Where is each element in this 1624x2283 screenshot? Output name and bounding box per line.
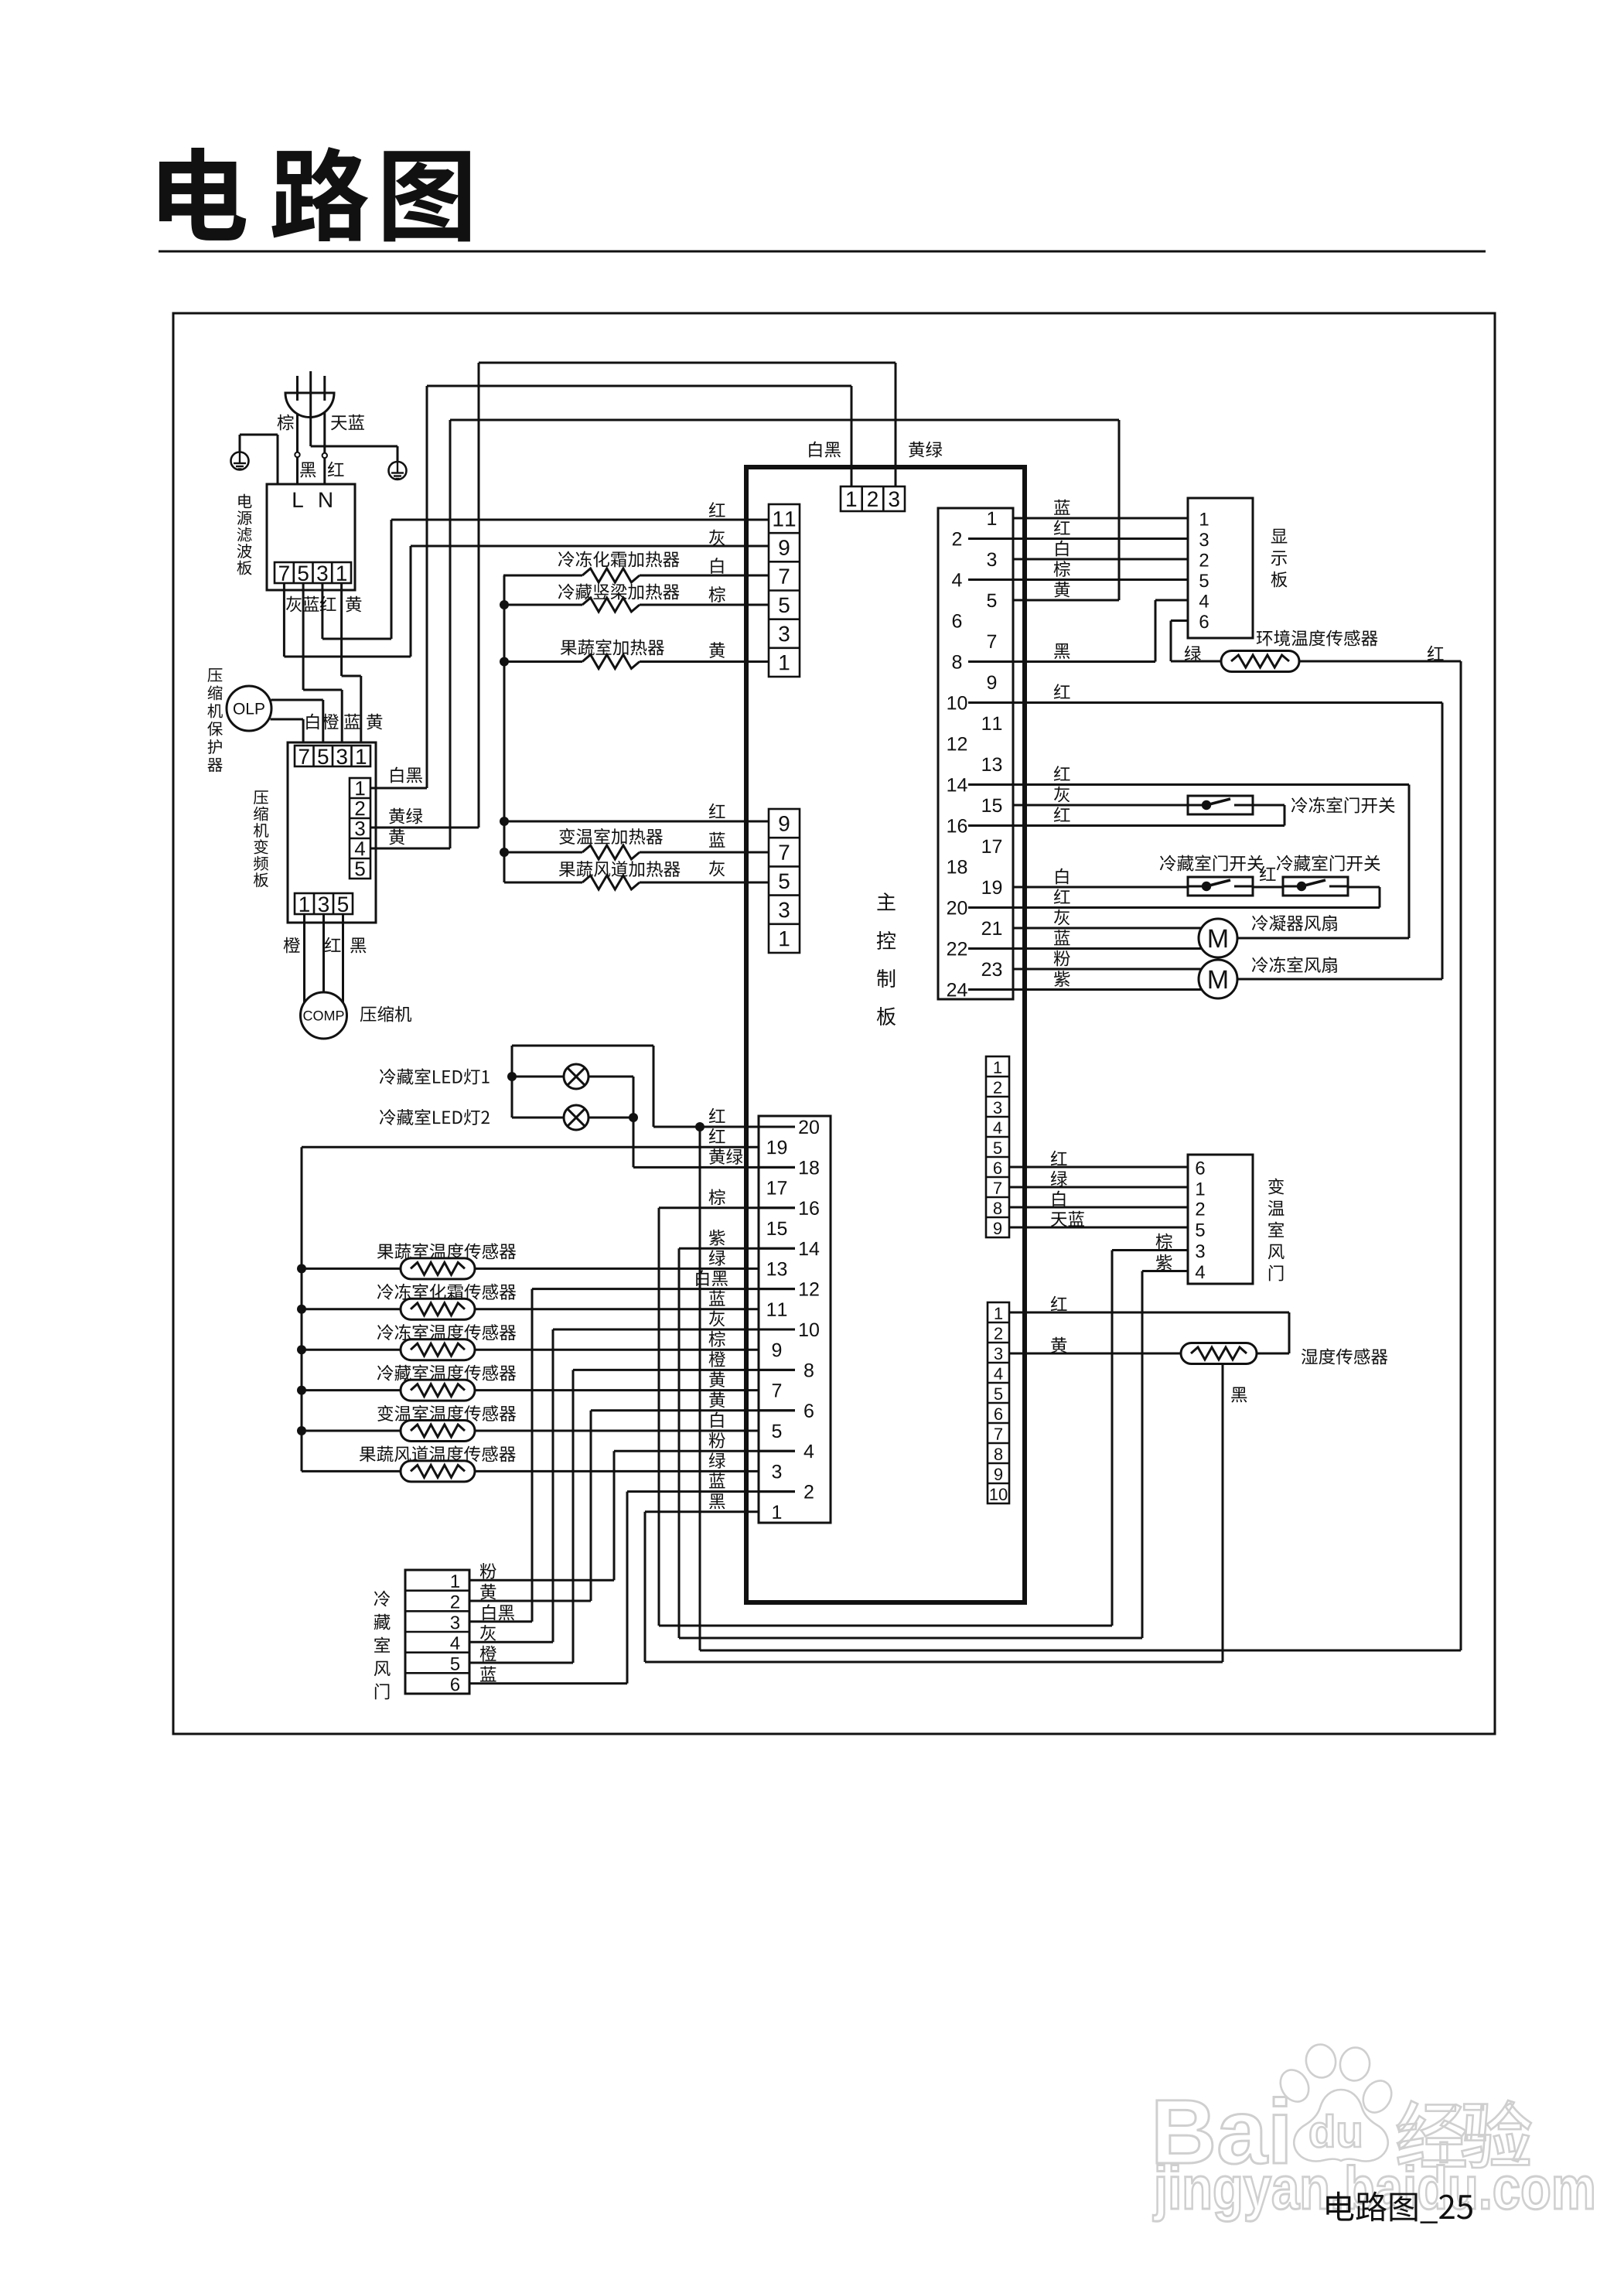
labels 红 黄 bbox=[1051, 1296, 1067, 1311]
plug prong earth bbox=[309, 371, 312, 418]
wire red 红: filter 3 to heater connector CN-A pin 11 bbox=[321, 583, 323, 639]
wire 红 CN-R 20 from fridge door switches bbox=[1348, 886, 1380, 889]
wire 棕 CN-R 4 to display 5 bbox=[1013, 578, 1188, 581]
label 红 bbox=[1428, 646, 1444, 660]
compressor protector OLP bbox=[227, 686, 271, 731]
connector CN-R pins 1-24 bbox=[938, 508, 1013, 999]
label 主控制板 (vertical) bbox=[877, 892, 896, 1025]
wire 棕 CN-L 16 to variable-room damper pin 3 bbox=[659, 1206, 795, 1209]
wire 橙: fridge damper pin 5 to CN-L pin 8 bbox=[573, 1369, 795, 1371]
label 蓝 at CN-L pin 2 bbox=[709, 1473, 725, 1488]
wire 蓝 CN-R 22 to condenser fan bbox=[1013, 947, 1201, 950]
wire 天蓝 CN-V1 9 to variable damper 5 bbox=[1009, 1227, 1188, 1229]
wire yellow 黄: filter 1 to inverter terminal 1 bbox=[340, 583, 343, 676]
wire 红 CN-V1 6 to variable damper 6 bbox=[1009, 1166, 1188, 1169]
label 绿 at CN-L pin 13 bbox=[709, 1250, 725, 1266]
connector CN-V1 pins 1-9 bbox=[986, 1056, 1009, 1237]
label 压缩机保护器 (vertical) bbox=[207, 668, 223, 772]
label 黄 at inverter bbox=[389, 829, 404, 845]
wire 绿 CN-V1 7 to variable damper 1 bbox=[1009, 1186, 1188, 1189]
junction dot LED1 bbox=[507, 1072, 517, 1081]
page title 电路图 bbox=[159, 148, 246, 241]
wire 黑 humidity sensor to bottom bus bbox=[1222, 1364, 1224, 1663]
label 绿 bbox=[1185, 646, 1201, 662]
inverter terminal strip 7 5 3 1 bbox=[295, 746, 370, 766]
labels 红红黄绿 at CN-L top bbox=[709, 1108, 725, 1123]
label 黑 bbox=[300, 462, 316, 478]
Baidu watermark bbox=[1157, 2097, 1286, 2164]
wire 黄: inverter pin 4 to main-board connector CN-R pin 5 bbox=[370, 848, 450, 850]
label 黄绿 at CN-T bbox=[909, 442, 942, 458]
fridge door switch 1 冷藏室门开关 bbox=[1188, 877, 1253, 896]
label 粉 at CN-L pin 4 bbox=[709, 1432, 725, 1449]
label 黑 bbox=[1231, 1387, 1247, 1403]
labels on damper wires bbox=[480, 1563, 496, 1579]
ambient temperature sensor 环境温度传感器 bbox=[1221, 651, 1299, 672]
fridge door switch 2 冷藏室门开关 bbox=[1283, 877, 1348, 896]
heater supply bus bbox=[503, 575, 506, 882]
label 白黑 at inverter bbox=[391, 767, 422, 783]
schematic outer border bbox=[173, 313, 1495, 1734]
label 蓝 at CN-L pin 11 bbox=[709, 1291, 725, 1306]
connector CN-T 1 2 3 bbox=[841, 486, 905, 511]
wire 红 CN-R 14 to condenser fan return bbox=[1013, 783, 1409, 786]
label 电源滤波板 (vertical) bbox=[237, 494, 251, 575]
label 白黑 at CN-L pin 12 bbox=[696, 1270, 728, 1286]
sensor 冷藏室温度传感器 bbox=[297, 1386, 306, 1395]
junction dot bbox=[500, 848, 509, 857]
wire red to CN-B pin 9 bbox=[504, 821, 769, 823]
wire 棕 to variable damper 3 bbox=[1112, 1249, 1188, 1251]
sensor 果蔬室温度传感器 bbox=[297, 1264, 306, 1273]
label 棕 bbox=[1156, 1234, 1172, 1250]
wire orange 橙: inverter 1 to compressor bbox=[303, 914, 305, 1003]
crisper heater 果蔬室加热器 bbox=[504, 660, 582, 663]
wire 黄 CN-V2 3 to humidity sensor bbox=[1009, 1353, 1181, 1355]
label 压缩机变频板 (vertical) bbox=[254, 790, 268, 887]
label 白 at CN-L pin 5 bbox=[711, 1412, 723, 1428]
plug prong N bbox=[323, 376, 326, 401]
CN-R even pin stubs bbox=[968, 537, 1013, 540]
sensor 果蔬风道温度传感器 bbox=[302, 1470, 759, 1473]
sensor 冷冻室化霜传感器 bbox=[297, 1305, 306, 1314]
label 红 between fridge switches bbox=[1260, 866, 1276, 881]
freezer fan motor M2 冷冻室风扇 bbox=[1237, 978, 1442, 981]
connector CN-V2 pins 1-10 bbox=[988, 1302, 1009, 1503]
wire display 4 to CN-R 8 (黑) bbox=[1155, 599, 1188, 602]
wire OLP to inverter terminal 7 bbox=[271, 718, 304, 721]
compressor inverter board 压缩机变频板 bbox=[288, 742, 376, 923]
wire 粉: fridge damper pin 1 to CN-L pin 4 bbox=[614, 1450, 795, 1452]
wire 蓝 CN-R 1 to display 1 bbox=[1013, 517, 1188, 520]
label 紫 bbox=[1156, 1254, 1172, 1271]
page number 电路图_25 bbox=[1326, 2192, 1472, 2223]
CN-L even pin stubs bbox=[759, 1490, 795, 1493]
label 黄绿 at inverter bbox=[389, 808, 422, 824]
wire sky-blue (天蓝) plug N to filter board bbox=[323, 412, 326, 453]
label 灰 at CN-L pin 10 bbox=[709, 1311, 725, 1327]
bus wire 黑 (CN-L1 to humidity sensor) bbox=[645, 1661, 1223, 1664]
wire grey 灰: filter 7 to heater connector CN-A pin 9 bbox=[283, 583, 285, 657]
heater connector CN-B pins 9 7 5 3 1 bbox=[769, 809, 800, 953]
wire 黑 CN-L 1 to humidity sensor bbox=[645, 1510, 759, 1513]
wire 红 CN-R 10 to freezer fan return bbox=[1013, 701, 1442, 704]
junction dot bbox=[500, 657, 509, 667]
wire 白 CN-R 3 to display 2 bbox=[1013, 558, 1188, 561]
wire 灰 CN-R 21 to condenser fan bbox=[1013, 927, 1201, 930]
label 天蓝 bbox=[331, 415, 364, 431]
labels 白橙蓝黄 above inverter terminals bbox=[306, 714, 319, 730]
wire 红 CN-V2 1 to humidity sensor bbox=[1009, 1312, 1289, 1314]
bus wire 棕 (CN-L16 to variable damper 3) bbox=[659, 1625, 1112, 1627]
wire 红 CN-L 20 to LED lamps and ambient-red bus bbox=[653, 1126, 795, 1128]
plug prong L bbox=[296, 376, 299, 401]
compressor COMP bbox=[301, 992, 347, 1039]
wire earth: plug to ground G2 bbox=[309, 418, 312, 447]
wire blue 蓝: filter 5 to inverter terminal 3 bbox=[302, 583, 305, 690]
LED loop top wire bbox=[653, 1046, 655, 1127]
wire OLP to inverter terminal 5 bbox=[271, 699, 323, 701]
label 黄 at CN-L pin 7 bbox=[709, 1371, 725, 1387]
ground symbol G1 bbox=[231, 452, 249, 470]
wire 红 ambient sensor to bottom bus bbox=[1299, 660, 1461, 663]
power filter board 电源滤波板 bbox=[267, 484, 355, 590]
junction dot bbox=[500, 600, 509, 609]
variable-room damper 变温室风门 bbox=[1188, 1155, 1253, 1284]
wire 黑 CN-R 8 to display 4 bbox=[1013, 660, 1155, 663]
filter board terminal strip 7 5 3 1 bbox=[275, 562, 351, 583]
wire: filter board to ground G1 bbox=[277, 435, 279, 484]
wire 蓝: fridge damper pin 6 to CN-L pin 2 bbox=[627, 1490, 795, 1493]
wire brown (棕) plug L to filter board bbox=[296, 414, 299, 452]
inverter bottom strip 1 3 5 bbox=[295, 893, 353, 914]
wire LED1 to LED2 junction bbox=[633, 1077, 635, 1167]
wire 粉 CN-R 23 to freezer fan bbox=[1013, 968, 1201, 971]
wire 紫 CN-R 24 to freezer fan bbox=[1013, 988, 1201, 991]
fridge damper connector 冷藏室风门 pins 1-6 bbox=[405, 1570, 469, 1694]
label 变温室风门 (vertical) bbox=[1268, 1178, 1285, 1281]
connector CN-L pins 1-20 bbox=[759, 1116, 831, 1523]
LED lamp 冷藏室LED灯1 bbox=[512, 1076, 633, 1078]
label 白黑 at CN-T bbox=[809, 442, 841, 458]
wire 白 CN-V1 8 to variable damper 2 bbox=[1009, 1206, 1188, 1209]
humidity sensor 湿度传感器 bbox=[1181, 1343, 1257, 1364]
freezer defrost heater 冷冻化霜加热器 bbox=[503, 575, 582, 577]
power plug P1 bbox=[285, 393, 334, 418]
label 压缩机 bbox=[360, 1006, 411, 1022]
variable-room heater 变温室加热器 bbox=[504, 851, 582, 854]
crisper duct heater 果蔬风道加热器 bbox=[504, 882, 582, 884]
inverter output connector pins 1-5 bbox=[350, 778, 370, 879]
fridge mullion heater 冷藏竖梁加热器 bbox=[504, 604, 582, 606]
wire 红 CN-R 16 from freezer door switch bbox=[1253, 804, 1285, 807]
wire 白黑: fridge damper pin 3 to CN-L pin 12 bbox=[532, 1288, 795, 1290]
wire 紫 to variable damper 4 bbox=[1142, 1270, 1188, 1272]
label 橙 at CN-L pin 8 bbox=[709, 1351, 725, 1367]
wire 黄绿: inverter pin 3 to connector CN-T pin 3 bbox=[370, 827, 479, 829]
condenser fan motor M1 冷凝器风扇 bbox=[1237, 937, 1409, 940]
sensor 冷冻室温度传感器 bbox=[297, 1345, 306, 1354]
wire 红 CN-R 2 to display 3 bbox=[1013, 537, 1188, 540]
wire red 红: inverter 3 to compressor bbox=[322, 914, 325, 992]
labels 红绿白天蓝 bbox=[1051, 1151, 1067, 1165]
wire 红 CN-L 19 sensors common bus bbox=[302, 1146, 759, 1148]
labels 红蓝灰 at CN-B bbox=[709, 804, 725, 818]
label 绿 at CN-L pin 3 bbox=[709, 1452, 725, 1469]
ground symbol G2 bbox=[389, 462, 407, 479]
wire 灰: fridge damper pin 4 to CN-L pin 10 bbox=[553, 1329, 795, 1331]
wire 紫 CN-L 14 to variable-room damper pin 4 bbox=[679, 1247, 795, 1250]
LED lamp 冷藏室LED灯2 bbox=[512, 1117, 633, 1119]
bus wire 红 (CN-L20 to ambient sensor) bbox=[700, 1650, 1461, 1652]
freezer door switch 冷冻室门开关 bbox=[1188, 796, 1253, 814]
labels 红灰白棕黄 at CN-A bbox=[709, 502, 725, 517]
label 显示板 (vertical) bbox=[1271, 529, 1288, 588]
wire 黄绿 CN-L 18 return of LEDs bbox=[633, 1166, 795, 1169]
main control board 主控制板 (thick outline) bbox=[746, 467, 1025, 1602]
labels 橙 红 黑 bbox=[284, 937, 300, 954]
wire 黄: fridge damper pin 2 to CN-L pin 6 bbox=[591, 1409, 795, 1411]
label 棕 bbox=[278, 415, 294, 431]
title underline bbox=[159, 251, 1486, 253]
label 冷藏室风门 (vertical) bbox=[374, 1591, 391, 1700]
labels on CN-R wires bbox=[1054, 500, 1070, 515]
label 红 bbox=[328, 462, 344, 476]
label 黄 at CN-L pin 6 bbox=[709, 1392, 725, 1408]
sensor 变温室温度传感器 bbox=[297, 1426, 306, 1435]
heater connector CN-A pins 11 9 7 5 3 1 bbox=[769, 504, 800, 677]
display board 显示板 bbox=[1188, 498, 1253, 638]
wire 灰 CN-R 15 to freezer door switch bbox=[1013, 804, 1188, 807]
bus wire 紫 (CN-L14 to variable damper 4) bbox=[679, 1637, 1142, 1640]
wire 白黑: inverter pin 1 to connector CN-T pin 1 bbox=[370, 787, 427, 790]
label L N bbox=[293, 493, 302, 507]
wire 白 CN-R 19 to fridge door switches bbox=[1013, 886, 1188, 889]
labels 灰蓝红黄 under filter terminals bbox=[286, 596, 302, 613]
junction dot bbox=[500, 817, 509, 826]
label 棕 at CN-L pin 9 bbox=[709, 1331, 725, 1347]
wire black 黑: inverter 5 to compressor bbox=[342, 914, 344, 1003]
wire display 6 to ambient sensor (绿) bbox=[1171, 619, 1188, 622]
